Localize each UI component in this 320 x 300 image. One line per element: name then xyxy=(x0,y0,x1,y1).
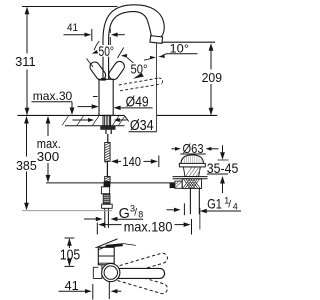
drain tailpipe left edge xyxy=(189,188,191,214)
diameter 49 left arrow line xyxy=(78,106,94,108)
10 degree angle left arrow xyxy=(150,56,156,59)
diameter 63 right line xyxy=(211,148,218,150)
max300 dimension line xyxy=(47,117,49,182)
G3/8 nipple left edge xyxy=(104,208,106,228)
35-45 flange tick xyxy=(218,159,229,161)
countertop hatching xyxy=(62,116,125,126)
10 degree angle right arrow xyxy=(158,55,165,58)
svg-text:max.30: max.30 xyxy=(33,89,73,103)
41 right arrow xyxy=(111,33,118,37)
outlet vertical reference line xyxy=(156,43,158,131)
svg-text:300: 300 xyxy=(37,149,59,164)
spout swivel dashed down position xyxy=(114,270,168,295)
hose braided segment 1 xyxy=(105,143,110,163)
side body joint line 2 xyxy=(98,262,114,264)
outlet extension line xyxy=(162,41,216,43)
ball rod end cap xyxy=(170,183,175,188)
countertop bottom line xyxy=(65,125,125,127)
50 degree upper label backing xyxy=(98,45,115,57)
basin surface lower line xyxy=(173,178,208,180)
flange neck hatching xyxy=(186,167,200,176)
209 bottom arrow xyxy=(209,108,214,116)
diameter 49 underline xyxy=(121,107,153,109)
diameter 34 hole right arrow xyxy=(120,119,127,121)
diameter 49 label backing xyxy=(124,95,150,107)
385 bottom arrow xyxy=(24,203,29,211)
svg-text:/: / xyxy=(228,200,231,211)
side view 105 dimension line xyxy=(68,239,70,266)
svg-text:4: 4 xyxy=(233,202,238,212)
pop-up plug dome xyxy=(181,155,204,164)
41 left tick xyxy=(91,29,93,41)
svg-text:50°: 50° xyxy=(99,44,115,59)
rod knot xyxy=(104,182,111,187)
G1 1/4 label xyxy=(207,196,238,212)
body side mark xyxy=(93,96,98,98)
svg-text:41: 41 xyxy=(67,22,78,34)
diameter 34 leader xyxy=(125,116,130,122)
diameter 63 left arrowhead xyxy=(175,147,181,151)
lever open position dashed end cap xyxy=(159,78,163,84)
svg-text:385: 385 xyxy=(16,158,37,173)
svg-text:max.180: max.180 xyxy=(124,218,173,234)
bottom 41 dimension line xyxy=(59,290,87,292)
lever knob left position xyxy=(88,60,107,82)
bottom 41 left-part arrow xyxy=(85,289,92,293)
10 degree leader curve xyxy=(162,54,167,56)
G1 1/4 underline xyxy=(204,210,241,212)
35-45 up arrow xyxy=(220,176,225,184)
lever knob right position xyxy=(107,59,126,81)
svg-text:G1: G1 xyxy=(207,196,222,211)
svg-text:50°: 50° xyxy=(131,62,148,76)
G3/8 nipple left arrow xyxy=(84,218,96,220)
plug dome hatching xyxy=(184,155,201,163)
10 degree underline xyxy=(166,53,198,55)
35-45 top segment xyxy=(222,145,224,153)
diameter 63 right arrowhead xyxy=(206,147,212,151)
diameter 63 left line xyxy=(172,148,177,150)
side body joint line 1 xyxy=(98,255,114,257)
bottom 41 right tick xyxy=(108,282,110,300)
diameter 34 hole left arrow xyxy=(73,119,89,121)
209 dimension line xyxy=(210,45,212,115)
bottom 41 left tick xyxy=(92,284,94,300)
max300 top arrow xyxy=(46,116,51,124)
top extension line xyxy=(22,6,118,8)
pull rod middle xyxy=(106,161,108,176)
svg-text:/: / xyxy=(134,208,137,219)
diameter 49 right arrowhead xyxy=(114,106,121,111)
countertop surface line left xyxy=(18,114,125,116)
G1 1/4 leader arrow xyxy=(200,209,207,214)
G3/8 nipple right arrow xyxy=(111,217,118,221)
pull rod upper xyxy=(107,134,109,143)
bottom 41 right arrow xyxy=(111,289,118,293)
35-45 down arrow xyxy=(220,152,225,160)
50 degree upper left arrow xyxy=(94,41,99,50)
50 degree lower leader arrow xyxy=(133,73,144,79)
311 top arrow xyxy=(25,7,30,15)
max180 left tick xyxy=(96,223,98,235)
41 dimension left line xyxy=(64,34,87,36)
gooseneck spout inner edge xyxy=(109,12,152,80)
209 top arrow xyxy=(209,43,214,51)
mounting nut xyxy=(100,126,115,134)
tailpiece thread xyxy=(103,194,110,204)
140 dimension left arrow xyxy=(111,159,118,164)
side view body xyxy=(98,247,114,264)
max180 right arrow xyxy=(175,224,185,226)
hose braided segment 2 xyxy=(105,177,110,182)
side view lever arm xyxy=(95,239,117,250)
385 landing gray line xyxy=(22,210,112,212)
spout solid position xyxy=(112,268,165,278)
swivel ring inner xyxy=(104,266,117,279)
diameter 49 left arrowhead xyxy=(92,104,99,109)
41 left arrow xyxy=(85,33,92,37)
lever pivot cap xyxy=(101,78,106,81)
max300 bottom arrow xyxy=(46,175,51,183)
35-45 underline xyxy=(207,173,228,175)
tailpiece collar xyxy=(102,204,113,208)
horizontal pop-up rod line xyxy=(46,182,176,184)
max180 left arrow xyxy=(98,222,105,227)
countertop surface line right xyxy=(157,114,217,116)
svg-text:105: 105 xyxy=(60,248,80,264)
svg-text:311: 311 xyxy=(15,54,35,69)
105 top arrow xyxy=(67,238,72,246)
spout swivel dashed up position xyxy=(114,252,168,277)
max.30 underline and right drop xyxy=(32,102,73,109)
G3/8 underline xyxy=(117,218,143,220)
max.30 down arrow xyxy=(70,108,75,116)
spout outlet aerator xyxy=(150,36,163,44)
side view base bracket xyxy=(93,265,102,279)
spout reference line xyxy=(109,29,111,47)
385 dimension line xyxy=(26,117,28,209)
max180 right tick xyxy=(191,219,193,235)
flange rim xyxy=(179,163,205,167)
lever open position dashed top edge xyxy=(119,78,159,85)
svg-text:209: 209 xyxy=(202,70,222,85)
diameter 34 label backing xyxy=(129,119,156,131)
svg-text:140: 140 xyxy=(122,154,141,169)
35-45 label backing xyxy=(206,162,240,174)
swivel ring outer xyxy=(102,264,120,282)
side view 105 top tick xyxy=(65,237,75,239)
diameter 34 underline xyxy=(129,131,157,133)
gooseneck spout outer edge xyxy=(103,5,164,80)
50 degree upper right arrow xyxy=(118,48,124,59)
G3/8 label xyxy=(119,204,144,222)
drain small dimension arrow xyxy=(167,209,176,211)
basin surface upper line xyxy=(173,176,208,178)
140 dimension right arrow xyxy=(151,159,158,164)
drain tailpipe right edge xyxy=(198,188,200,214)
drain small dimension tick xyxy=(183,203,185,215)
385 top arrow xyxy=(24,116,29,124)
41 right tail xyxy=(117,34,125,36)
311 bottom arrow xyxy=(25,108,30,116)
ball rod joint xyxy=(175,181,182,188)
drain locknut xyxy=(182,179,201,189)
50 degree left lever edge xyxy=(87,59,94,68)
side view 105 bottom tick xyxy=(65,265,75,267)
105 bottom arrow xyxy=(67,259,72,267)
G3/8 nipple right edge xyxy=(107,208,109,228)
diameter 63 underline xyxy=(180,153,206,155)
flange neck xyxy=(183,167,200,177)
faucet body xyxy=(99,79,113,115)
140 dimension right tick xyxy=(158,156,160,168)
lever open position dashed bottom edge xyxy=(120,84,162,91)
311 dimension line xyxy=(26,8,28,115)
threaded shank through counter xyxy=(103,116,111,126)
connector block xyxy=(101,187,109,194)
side view lever knob xyxy=(106,243,123,248)
